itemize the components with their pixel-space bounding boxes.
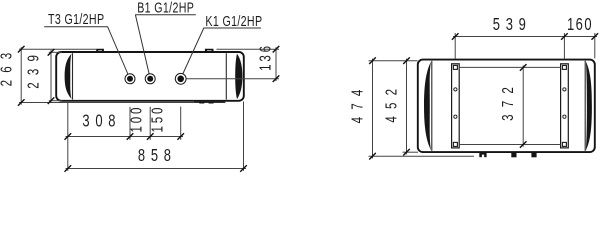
right mounting rail (561, 64, 569, 148)
dimension 263 (20, 47, 22, 104)
connection B1 leader (135, 15, 149, 74)
extension line vertical T3 (129, 107, 131, 140)
right weld seam line (225, 53, 227, 99)
svg-text:239: 239 (24, 48, 42, 89)
svg-text:136: 136 (255, 43, 273, 71)
bottom foot 2 (511, 153, 516, 157)
extension line vertical right end (243, 102, 245, 171)
connection point B1 (145, 74, 155, 84)
extension line tab-top left (19, 48, 96, 50)
svg-text:452: 452 (381, 82, 399, 123)
connection T3 leader (108, 27, 128, 74)
dimension 452 (406, 59, 408, 155)
extension line rear top (369, 60, 418, 62)
dimension 239 (50, 50, 52, 103)
rear right weld seam line (584, 61, 586, 151)
svg-text:T3 G1/2HP: T3 G1/2HP (48, 10, 104, 27)
rear left dished head crescent (424, 62, 431, 151)
left top mounting tab (96, 49, 104, 52)
extension line 539 right (563, 33, 565, 59)
svg-text:B1 G1/2HP: B1 G1/2HP (137, 0, 194, 16)
connection point K1 (175, 73, 186, 84)
extension line 372 top (459, 66, 560, 68)
extension line tab-top right (217, 48, 280, 50)
tank body front view (56, 52, 244, 101)
dimension 858 (66, 168, 247, 170)
tank body rear view (418, 60, 595, 153)
extension line 372 bottom (459, 144, 560, 146)
dimension text 100 (127, 105, 145, 133)
label B1 G1/2HP (137, 0, 194, 16)
svg-text:K1 G1/2HP: K1 G1/2HP (205, 12, 262, 29)
svg-text:308: 308 (82, 111, 121, 131)
K1 reference line to 136 dimension (186, 78, 279, 80)
bottom bracket strip (194, 102, 225, 104)
dimension row 539 160 (453, 36, 597, 38)
svg-text:150: 150 (148, 105, 166, 133)
left dished head crescent (65, 54, 72, 99)
label T3 G1/2HP (48, 10, 104, 27)
dimension 474 (372, 59, 374, 159)
svg-text:160: 160 (567, 15, 593, 35)
right dished head crescent (235, 54, 242, 100)
extension line rear bottom feet (369, 155, 475, 157)
dimension text 539 (493, 15, 532, 35)
extension line vertical K1 (180, 107, 182, 140)
dimension 136 (275, 47, 277, 81)
connection point T3 (125, 74, 135, 84)
left weld seam line (72, 53, 74, 99)
left mounting rail (452, 64, 460, 148)
dimension 372 (522, 65, 524, 146)
svg-text:858: 858 (138, 146, 177, 166)
dimension text 308 (82, 111, 121, 131)
svg-text:539: 539 (493, 15, 532, 35)
extension line 160 right (594, 33, 596, 58)
svg-text:263: 263 (0, 46, 15, 87)
rear right dished head crescent (586, 62, 592, 151)
right top mounting tab (205, 49, 214, 52)
extension line 239 bottom (49, 100, 62, 102)
extension line vertical B1 (149, 107, 151, 140)
rear left weld seam line (431, 61, 433, 151)
extension line 239 top (49, 51, 62, 53)
extension line 263 bottom (19, 102, 195, 104)
label K1 G1/2HP (205, 12, 262, 29)
bottom foot 1 (479, 153, 486, 157)
svg-text:372: 372 (498, 80, 516, 121)
extension line vertical left end (67, 103, 69, 171)
extension line 539 left (454, 33, 456, 59)
svg-text:100: 100 (127, 105, 145, 133)
dimension text 150 (148, 105, 166, 133)
connection K1 leader (183, 28, 204, 74)
dimension row 308 100 150 (66, 136, 184, 138)
bottom foot 3 (531, 153, 536, 157)
extension line rear bottom tank (403, 151, 419, 153)
dimension text 160 (567, 15, 593, 35)
svg-text:474: 474 (347, 82, 365, 123)
